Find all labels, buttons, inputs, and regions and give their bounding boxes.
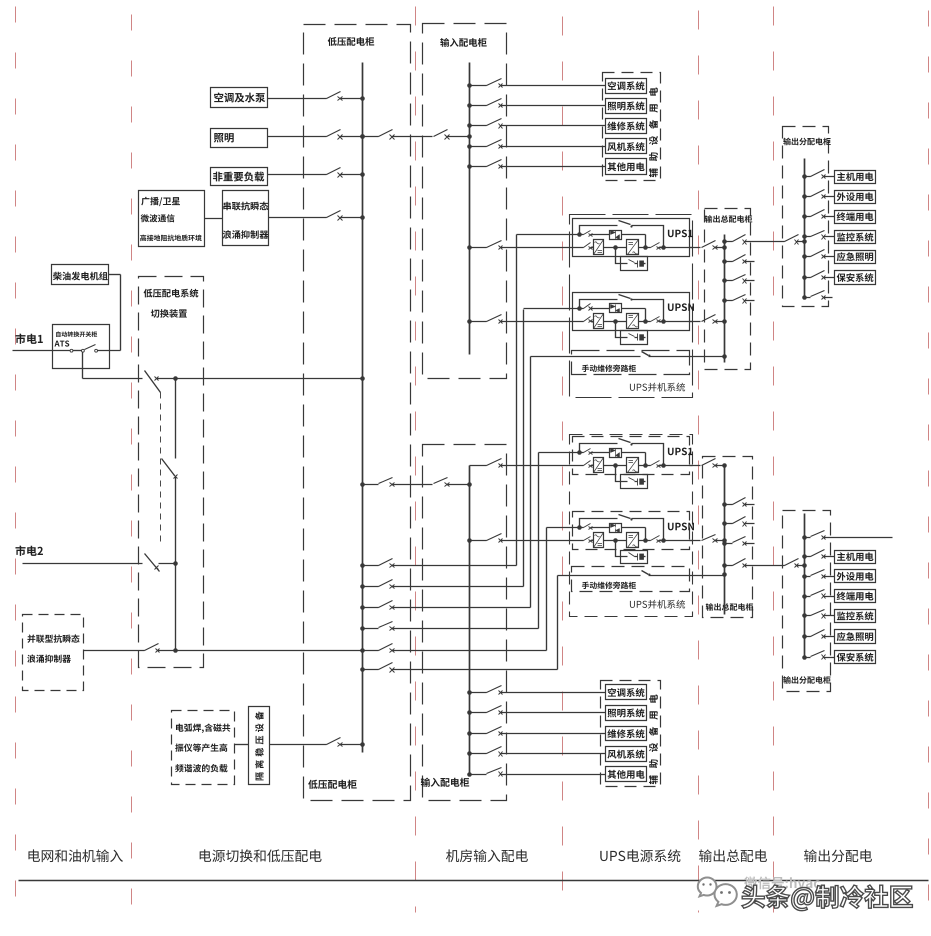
inverter box UPSN: [627, 533, 639, 548]
riser R3 to 手动维修旁路柜#1: [530, 357, 532, 608]
battery symbol UPSN: [637, 554, 639, 561]
box 柴油发电机组: [52, 265, 109, 285]
node 手动维修旁路#2 at 总配#2 bus: [722, 572, 727, 577]
label 切换装置: [151, 309, 187, 318]
cabinet box 输出分配电柜 #2 (dashed): [783, 511, 831, 692]
riser R1 to UPS1#1 bypass: [516, 235, 518, 566]
wire+breaker row 外设用电 #2: [805, 576, 835, 578]
load box 照明: [211, 129, 268, 148]
load box 终端用电 #2: [835, 590, 876, 603]
label UPSN: [668, 303, 694, 311]
load box 空调系统 #1: [606, 79, 647, 94]
wire+breaker row 照明 (feeds 输入配电柜#1): [268, 136, 363, 138]
wire+breaker row 外设用电 #1: [805, 196, 835, 198]
wire+breaker row 非重要负载: [268, 174, 363, 176]
wire+breaker row 空调系统 #2: [470, 692, 606, 694]
zone label 输出总配电: [699, 849, 767, 862]
ATS switch blade: [85, 345, 96, 350]
zone label 电源切换和低压配电: [200, 849, 322, 862]
battery branch UPSN: [616, 322, 638, 338]
main switch after ATS: [83, 378, 143, 380]
wire bypass input UPS1: [539, 452, 580, 454]
load box 终端用电 #1: [835, 211, 876, 224]
main input wire UPS1#2 from 输入配电柜#2 bus top: [470, 465, 583, 467]
zone separator red dashed line between 机房输入配电 and UPS电源系统: [562, 17, 564, 913]
rectifier box UPSN: [594, 314, 604, 329]
wire+breaker row 串联抗瞬态浪涌抑制器: [269, 217, 363, 219]
maintenance bypass path UPS1 (top): [580, 226, 664, 248]
wire UPS1#2 output to 总配#2 bus with switch: [690, 465, 725, 467]
wire+breaker row 主机用电 #2: [805, 556, 835, 558]
wire+breaker row 终端用电 #2: [805, 596, 835, 598]
LV bypass row 5 (to UPSN#2 bypass) with breaker; also 市电2/并联型浪涌抑制器 at left: [363, 650, 547, 652]
box 串联抗瞬态浪涌抑制器: [223, 191, 269, 246]
label 低压配电系统: [144, 289, 199, 298]
watermark light gray text 微信号: [744, 876, 820, 889]
wire bypass input UPSN: [547, 527, 580, 529]
load box 风机系统 #1: [606, 139, 647, 154]
maintenance bypass path UPSN (top): [580, 300, 664, 322]
box 隔离稳压设备 (vertical text): [249, 707, 270, 785]
main path through UPS1: [583, 247, 594, 249]
vertical label 辅助设备用电 #1: [649, 87, 658, 177]
load box 空调系统 #2: [606, 685, 647, 700]
wire+breaker row 应急照明 #1: [805, 256, 835, 258]
stub output row 总配#1 y=301: [725, 300, 755, 302]
cabinet box 低压配电柜 (full height dashed): [304, 25, 411, 801]
manual bypass wire #2 with switch: [558, 575, 725, 577]
static bypass switch UPSN: [581, 527, 610, 529]
main input wire UPS1: [470, 247, 583, 249]
load box 照明系统 #2: [606, 706, 647, 721]
UPS unit box UPSN: [573, 293, 690, 331]
box 自动转换开关柜 ATS: [53, 325, 110, 369]
label 输入配电柜 #1: [440, 38, 486, 47]
vertical label 隔离稳压设备: [255, 711, 264, 780]
box 广播/卫星 微波通信 高接地阻抗地质环境: [139, 191, 205, 247]
wire+breaker row 终端用电 #1: [805, 216, 835, 218]
inverter box UPS1: [627, 458, 639, 473]
riser R2 to UPSN#1 bypass: [523, 310, 525, 587]
wire 广播箱 to 串联抗瞬态浪涌抑制器: [205, 218, 223, 220]
UPS unit box UPSN: [573, 512, 690, 550]
wire+breaker row 隔离稳压设备 loads: [270, 744, 363, 746]
UPS unit box UPS1: [573, 219, 690, 257]
cabinet box 输出总配电柜 #2 (dashed): [703, 457, 753, 618]
zone separator red dashed line (left edge): [15, 7, 17, 913]
output switch UPS1: [639, 465, 693, 467]
label 市电2: [15, 546, 42, 556]
label 低压配电柜 (top): [328, 37, 375, 46]
wire UPS1#1 output to 总配#1 bus with switch: [690, 247, 725, 249]
stub row 输出分配电柜#1 bottom: [805, 297, 833, 299]
battery symbol UPS1: [637, 479, 639, 486]
wire diesel generator to ATS: [98, 350, 121, 352]
wire+breaker row 保安系统 #1: [805, 277, 835, 279]
cabinet box 输出总配电柜 #1 (dashed): [705, 209, 751, 370]
output feeder row 总配#1 to 分配#1 with two switches: [725, 241, 805, 243]
load box 其他用电 #2: [606, 767, 647, 782]
load box 空调及水泵: [211, 88, 268, 108]
battery box UPS1: [621, 475, 648, 489]
wire+breaker row 保安系统 #2: [805, 657, 835, 659]
wire 电弧焊负载 to 隔离稳压设备: [235, 744, 249, 746]
LV bypass row 3 (to 手动维修旁路柜#1) with breaker: [363, 607, 531, 609]
label UPS1: [668, 230, 693, 238]
label UPS1: [668, 448, 693, 456]
wire+breaker row 监控系统 #2: [805, 615, 835, 617]
load box 应急照明 #2: [835, 630, 876, 644]
battery box UPSN: [621, 551, 648, 564]
cabinet box 输入配电柜 #1 (dashed): [423, 24, 507, 379]
wire+breaker row 照明系统 #1: [470, 105, 606, 107]
zone label 电网和油机输入: [28, 849, 122, 862]
wire UPSN#1 output to 总配#1 bus with switch: [690, 321, 725, 323]
mechanical linkage (dashed) between changeover switches: [160, 393, 162, 545]
battery box UPS1: [621, 257, 648, 271]
zone separator red dashed line between UPS电源系统 and 输出总配电: [698, 11, 700, 913]
wire ATS output drop: [82, 353, 84, 379]
wire bypass input UPSN: [524, 308, 580, 310]
maintenance bypass path UPSN (top): [580, 519, 664, 541]
load box 主机用电 #1: [835, 171, 876, 184]
zone label UPS电源系统: [600, 849, 680, 862]
wire UPSN#2 output to 总配#2 bus with switch: [690, 540, 725, 542]
wire+breaker row 照明系统 #2: [470, 712, 606, 714]
wire+breaker row 其他用电 #2: [470, 774, 606, 776]
manual maintenance bypass box #1 (dashed): [572, 351, 690, 375]
load box 监控系统 #2: [835, 610, 876, 623]
wire+breaker row 风机系统 #2: [470, 753, 606, 755]
bus 低压配电柜母线 (vertical): [362, 63, 364, 753]
stub output row 总配#2 y=523.9: [725, 523, 755, 525]
output switch UPS1: [639, 247, 693, 249]
bus 输出分配电柜#1 母线: [804, 159, 806, 298]
feeder 低压配电柜 to 输入配电柜#1 (two switches): [363, 136, 433, 138]
manual bypass wire #1 with switch: [531, 356, 725, 358]
zone separator red dashed line between 电源切换和低压配电 and 机房输入配电: [415, 7, 417, 913]
main path through UPS1: [583, 465, 594, 467]
label 输出总配电柜 #1: [705, 215, 753, 223]
UPS parallel system outer box #2 (dashed): [570, 435, 693, 617]
bus 输入配电柜#2 母线: [469, 466, 471, 775]
load box 外设用电 #2: [835, 570, 876, 583]
zone separator red dashed line between 输出总配电 and 输出分配电: [773, 7, 775, 913]
rectifier box UPS1: [594, 240, 604, 255]
box 电弧焊含磁共振仪等产生高频谐波的负载 (dashed): [172, 711, 235, 785]
auxiliary loads outer box #1 (dashed): [603, 73, 661, 181]
LV bypass row 2 (to UPSN#1 bypass) with breaker: [363, 586, 524, 588]
label UPS并机系统 #1: [630, 383, 685, 392]
bus 输出分配电柜#2 母线: [804, 514, 806, 658]
box 并联型抗瞬态浪涌抑制器 (dashed): [23, 615, 84, 691]
stub output row 总配#2 y=504.4: [725, 504, 755, 506]
LV bypass row 4 (to UPS1#2 bypass) with breaker: [363, 628, 539, 630]
label 输出分配电柜 #2: [783, 676, 831, 684]
load box 应急照明 #1: [835, 251, 876, 264]
load box 其他用电 #1: [606, 159, 647, 175]
load box 维修系统 #2: [606, 727, 647, 741]
LV bypass row 6 (to 手动维修旁路柜#2) with breaker: [363, 669, 558, 671]
static bypass switch UPS1: [581, 234, 610, 236]
wire+breaker row 其他用电 #1: [470, 166, 606, 168]
riser R6 to 手动维修旁路柜#2: [557, 576, 559, 670]
inverter box UPSN: [627, 314, 639, 329]
auxiliary loads outer box #2 (dashed): [601, 681, 661, 787]
wire 市电2 input with changeover switch: [23, 563, 143, 565]
label 输出分配电柜 #1: [783, 138, 831, 146]
label UPSN: [668, 523, 694, 531]
load box 外设用电 #1: [835, 191, 876, 204]
cabinet box 输出分配电柜 #1 (dashed): [783, 127, 829, 307]
load box 主机用电 #2: [835, 551, 876, 564]
wire+breaker row 空调及水泵: [268, 98, 363, 100]
main path through UPSN: [583, 540, 594, 542]
bus 输出总配电柜#1 母线: [724, 235, 726, 363]
wire 并联型浪涌抑制器 to bus (row 5 left) with switch: [84, 650, 145, 652]
battery symbol UPSN: [637, 334, 639, 341]
stub output row 总配#2 y=543.3: [725, 543, 755, 545]
cabinet box 输入配电柜 #2 (dashed): [423, 445, 507, 801]
load box 照明系统 #1: [606, 99, 647, 114]
wire+breaker row 空调系统 #1: [470, 85, 606, 87]
battery symbol UPS1: [637, 261, 639, 268]
cabinet box 低压配电系统切换装置 (dashed): [139, 277, 204, 668]
wire 市电1 input: [13, 350, 53, 352]
load box 保安系统 #2: [835, 651, 876, 664]
zone separator red dashed line between 电网和油机输入 and 电源切换和低压配电: [131, 15, 133, 913]
load box 保安系统 #1: [835, 271, 876, 285]
label 输入配电柜 #2: [421, 778, 469, 787]
main input wire UPSN: [470, 321, 583, 323]
bus 输出总配电柜#2 母线: [724, 467, 726, 615]
inverter box UPS1: [627, 240, 639, 255]
stub output row 总配#1 y=261.5: [725, 261, 755, 263]
bus 输入配电柜#1 母线: [469, 63, 471, 355]
battery branch UPS1: [616, 466, 638, 482]
wire+breaker row 主机用电 #1: [805, 176, 835, 178]
output switch UPSN: [639, 321, 693, 323]
load box 监控系统 #1: [835, 231, 876, 244]
vertical label 辅助设备用电 #2: [649, 694, 658, 784]
zone separator red dashed line (right edge): [928, 11, 930, 913]
zone label 输出分配电: [804, 849, 872, 862]
label UPS并机系统 #2: [630, 600, 685, 609]
stub output row 总配#1 y=281: [725, 280, 755, 282]
wire+breaker row 应急照明 #2: [805, 636, 835, 638]
top spare row 输出分配电柜#2 (runs to right edge): [805, 537, 893, 539]
label 手动维修旁路柜 #1: [582, 365, 636, 372]
riser R4 to UPS1#2 bypass: [538, 453, 540, 629]
main input wire UPSN: [470, 540, 583, 542]
wire bypass input UPS1: [517, 234, 580, 236]
node ATS output to bus: [173, 376, 178, 381]
LV bypass row 1 (to UPS1#1 bypass) with breaker: [363, 565, 517, 567]
wire+breaker row 风机系统 #1: [470, 146, 606, 148]
ATS transfer switch contacts: [70, 349, 73, 352]
main path through UPSN: [583, 321, 594, 323]
label 输出总配电柜 #2: [706, 603, 754, 611]
load box 风机系统 #2: [606, 747, 647, 762]
riser/switch column x=175.4: [175, 379, 177, 651]
load box 非重要负载: [211, 168, 268, 186]
load box 维修系统 #1: [606, 119, 647, 134]
wire+breaker row 监控系统 #1: [805, 236, 835, 238]
UPS unit box UPS1: [573, 437, 690, 475]
wire+breaker row 维修系统 #2: [470, 733, 606, 735]
zone label 机房输入配电: [446, 849, 528, 862]
rectifier box UPS1: [594, 458, 604, 473]
static bypass switch UPSN: [581, 308, 610, 310]
label 市电1: [15, 334, 42, 344]
feeder 低压配电柜 to 输入配电柜#2 (two switches): [363, 484, 433, 486]
manual maintenance bypass box #2 (dashed): [572, 567, 690, 592]
battery branch UPSN: [616, 541, 638, 557]
riser R5 to UPSN#2 bypass: [546, 528, 548, 651]
battery branch UPS1: [616, 248, 638, 264]
UPS parallel system outer box #1 (solid): [570, 215, 693, 398]
battery box UPSN: [621, 331, 648, 345]
output switch UPSN: [639, 540, 693, 542]
output feeder row 总配#2 to 分配#2 with two switches: [725, 565, 805, 567]
wire+breaker row 维修系统 #1: [470, 125, 606, 127]
maintenance bypass path UPS1 (top): [580, 444, 664, 466]
watermark outlined text 头条@制冷社区: [742, 885, 912, 911]
watermark wechat icon (two chat bubbles): [698, 878, 737, 906]
node 手动维修旁路#1 at 总配#1 bus: [722, 354, 727, 359]
label 手动维修旁路柜 #2: [582, 582, 636, 589]
bottom separator line: [19, 880, 929, 882]
rectifier box UPSN: [594, 533, 604, 548]
label 低压配电柜 (bottom): [308, 780, 356, 789]
static bypass switch UPS1: [581, 452, 610, 454]
